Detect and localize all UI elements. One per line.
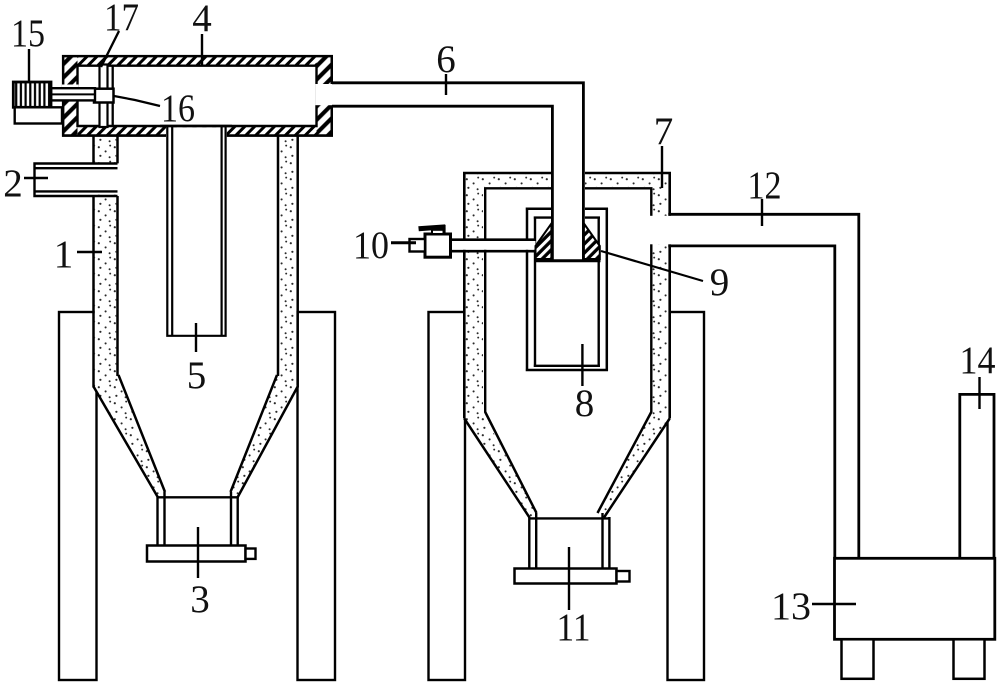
tube 5	[166, 126, 227, 336]
vessel 1 left wall stipple	[95, 134, 117, 387]
vessel 7 neck	[529, 513, 609, 569]
hatch block 9 right	[584, 224, 600, 260]
svg-text:7: 7	[654, 110, 674, 153]
box 13 leg right	[954, 639, 985, 679]
svg-text:17: 17	[104, 0, 139, 39]
svg-text:12: 12	[748, 164, 782, 207]
box 4 hatched border top band	[63, 56, 332, 65]
block 16	[94, 89, 114, 103]
svg-text:8: 8	[575, 382, 595, 425]
vessel 7 left wall stipple	[466, 174, 484, 418]
vessel 1 cone left wall	[93, 375, 166, 499]
svg-text:16: 16	[161, 87, 195, 130]
box 4 bottom inner line across tube	[160, 125, 232, 127]
hatch block 9 left	[536, 224, 552, 260]
box 4 left border gap for shaft	[62, 85, 79, 100]
vessel 7 cone lines	[464, 412, 669, 518]
outlet 3 nub	[246, 549, 256, 559]
vessel 7 cone left wall	[463, 413, 536, 519]
outlet 11 nub	[617, 571, 630, 582]
pipe 2 whiteout	[92, 165, 119, 195]
svg-text:2: 2	[3, 162, 23, 205]
svg-text:13: 13	[771, 585, 811, 628]
box 4 hatched border left band	[63, 56, 77, 135]
box 8 outer	[526, 208, 608, 371]
leg L1 of vessel 1	[59, 312, 97, 680]
svg-text:10: 10	[353, 224, 389, 267]
svg-text:5: 5	[187, 354, 207, 397]
rod 17 lower	[100, 102, 108, 127]
pipe 14	[958, 394, 995, 558]
box 4 right border gap for pipe 6	[315, 84, 333, 105]
pipe 12 whiteout	[650, 216, 858, 245]
box 13 leg left	[842, 639, 874, 679]
vessel 1 cone left lines	[94, 375, 166, 498]
vessel 1 left wall lines	[94, 134, 118, 388]
vessel 1 neck	[158, 492, 238, 546]
shaft midline	[51, 93, 95, 95]
shaft of 15	[51, 88, 95, 100]
box 4 bottom border gap for tube 5	[166, 127, 227, 137]
plate under 15	[15, 107, 62, 123]
svg-text:15: 15	[11, 12, 45, 55]
leg L4 of vessel 7	[668, 312, 705, 680]
screw block 15	[13, 82, 51, 107]
valve 10 stem	[432, 230, 444, 234]
svg-text:14: 14	[960, 339, 996, 382]
vessel 1 right wall lines	[278, 134, 298, 388]
vessel 7 liner lines	[484, 188, 653, 413]
pipe 2	[35, 162, 118, 197]
vessel 7 right wall stipple	[651, 174, 668, 418]
pipe 10 whiteout	[451, 241, 536, 250]
vessel 1 cone right lines	[231, 375, 298, 498]
svg-text:11: 11	[557, 606, 591, 649]
vessel 7 top band stipple	[466, 174, 669, 187]
pipe 6 whiteout	[551, 84, 585, 258]
pipe 12	[668, 214, 859, 558]
outlet 3 flange	[147, 546, 246, 562]
svg-text:3: 3	[190, 578, 210, 621]
valve 10 stub	[410, 239, 426, 252]
box 4 hatched border right band	[317, 56, 332, 135]
box 13	[835, 558, 995, 639]
pipe 10	[451, 240, 536, 252]
pipe 6	[332, 83, 583, 260]
chamber wall in box 4	[112, 66, 114, 126]
vessel 7 outer lines	[463, 173, 671, 419]
valve 10 body	[425, 234, 451, 257]
svg-text:1: 1	[54, 233, 74, 276]
leg L2 of vessel 1	[298, 312, 336, 680]
outlet 11 flange	[515, 569, 617, 584]
leg L3 of vessel 7	[429, 312, 466, 680]
box 8 inner	[534, 217, 600, 367]
svg-text:9: 9	[710, 261, 730, 304]
seat line under 9	[534, 259, 601, 262]
rod 17 upper	[100, 65, 108, 90]
vessel 1 right wall stipple	[279, 134, 296, 387]
vessel 1 cone right wall	[230, 375, 299, 499]
vessel 7 cone right wall	[598, 413, 671, 519]
box 4 hatched border bottom band	[63, 126, 332, 136]
valve 10 handle	[418, 224, 445, 231]
box 4 body	[63, 56, 332, 135]
